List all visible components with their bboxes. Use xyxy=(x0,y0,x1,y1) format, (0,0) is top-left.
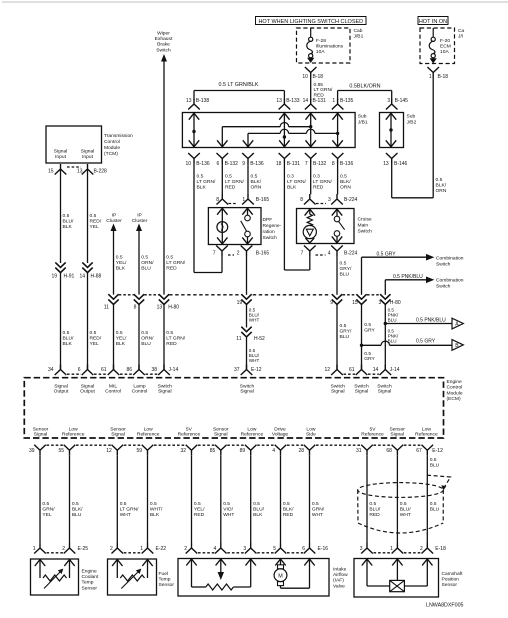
ECM bottom pin 85 xyxy=(215,445,227,456)
svg-text:Low: Low xyxy=(144,426,153,432)
svg-text:0.85: 0.85 xyxy=(314,82,324,88)
svg-text:Module: Module xyxy=(447,390,463,396)
svg-text:Transmission: Transmission xyxy=(104,133,133,139)
dashed link B-224 bottom xyxy=(316,254,326,256)
connector 15 H-80 xyxy=(356,294,366,304)
svg-text:Sub: Sub xyxy=(358,114,367,120)
svg-text:3: 3 xyxy=(328,197,331,203)
CMP pickup coil xyxy=(362,559,372,566)
svg-text:9: 9 xyxy=(242,161,245,167)
svg-text:RED: RED xyxy=(166,265,177,271)
svg-text:10A: 10A xyxy=(440,49,449,55)
svg-text:14: 14 xyxy=(79,274,85,280)
svg-text:LT GRN/: LT GRN/ xyxy=(313,179,332,185)
svg-text:13: 13 xyxy=(186,98,192,104)
connector 9 H-80 xyxy=(332,294,342,304)
svg-text:Signal: Signal xyxy=(355,389,369,395)
svg-text:Wiper: Wiper xyxy=(157,31,170,37)
svg-text:J/B2: J/B2 xyxy=(407,120,417,126)
wire TCM pin15 upper xyxy=(60,169,62,263)
wire fuse F-28 to B-131 xyxy=(310,78,312,101)
svg-text:BLU/: BLU/ xyxy=(63,218,75,224)
svg-text:5: 5 xyxy=(273,546,276,552)
svg-text:YEL: YEL xyxy=(90,341,100,347)
svg-text:0.5: 0.5 xyxy=(90,213,97,219)
svg-text:6: 6 xyxy=(217,161,220,167)
svg-text:1: 1 xyxy=(33,546,36,552)
ECM bottom pin 12 xyxy=(112,445,124,456)
svg-text:Signal: Signal xyxy=(378,389,392,395)
Sub J/B1 branch wire pin9 xyxy=(247,133,249,147)
svg-text:LT GRN/: LT GRN/ xyxy=(197,179,216,185)
svg-text:2: 2 xyxy=(184,546,187,552)
svg-text:B-224: B-224 xyxy=(344,251,358,257)
svg-text:(ECM): (ECM) xyxy=(447,396,461,402)
svg-text:BLK: BLK xyxy=(287,184,297,190)
svg-text:RED: RED xyxy=(313,184,324,190)
connector 10 B-136 xyxy=(188,153,200,164)
svg-text:Sensor: Sensor xyxy=(389,426,405,432)
svg-text:0.5: 0.5 xyxy=(283,501,290,507)
svg-text:(TCM): (TCM) xyxy=(104,151,118,157)
sensor connector pin 1 E-22 xyxy=(142,543,154,554)
svg-text:0.5: 0.5 xyxy=(150,501,157,507)
svg-text:0.5: 0.5 xyxy=(430,457,437,463)
connector 11 H-80 xyxy=(108,294,118,304)
svg-text:34: 34 xyxy=(48,367,54,373)
ECM bottom pin 55 xyxy=(64,445,76,456)
svg-text:BLU: BLU xyxy=(430,506,440,512)
IAF wiper arrow xyxy=(216,559,226,566)
connector 14 B-131 xyxy=(305,99,317,110)
wire wiper switch down xyxy=(163,61,165,295)
svg-text:BLU: BLU xyxy=(388,317,397,322)
svg-text:8: 8 xyxy=(216,197,219,203)
svg-text:8: 8 xyxy=(300,197,303,203)
connector 13 B-133 xyxy=(279,99,291,110)
wire PNK branch to A xyxy=(385,323,452,325)
svg-text:10A: 10A xyxy=(316,49,325,55)
wire DPF pin2 to ECM pin37 xyxy=(246,337,248,369)
wire TCM pin13 upper xyxy=(87,169,89,263)
svg-text:Airflow: Airflow xyxy=(333,572,348,578)
svg-text:Output: Output xyxy=(80,389,95,395)
connector row dashed mid xyxy=(253,294,328,296)
wire IP1 lower xyxy=(113,305,115,370)
svg-text:ORN: ORN xyxy=(251,184,262,190)
svg-text:Intake: Intake xyxy=(333,567,347,573)
bottom wire x=427.3 xyxy=(426,455,428,543)
svg-text:0.3: 0.3 xyxy=(313,174,320,180)
svg-text:B-145: B-145 xyxy=(395,98,409,104)
svg-text:Sensor: Sensor xyxy=(110,426,126,432)
box Camshaft Position Sensor xyxy=(354,559,439,598)
svg-text:Switch: Switch xyxy=(436,261,451,267)
svg-text:BLU: BLU xyxy=(141,341,151,347)
svg-text:0.5 PNK/BLU: 0.5 PNK/BLU xyxy=(416,318,446,324)
connector 6 B-132 xyxy=(217,153,229,164)
svg-text:Cluster: Cluster xyxy=(132,218,148,224)
svg-text:6: 6 xyxy=(302,546,305,552)
svg-text:B-136: B-136 xyxy=(250,161,264,167)
connector 13 B-138 xyxy=(188,99,200,110)
svg-text:BLK/: BLK/ xyxy=(283,506,294,512)
svg-text:0.5 PNK/BLU: 0.5 PNK/BLU xyxy=(393,274,423,280)
triangle A xyxy=(452,318,463,329)
svg-text:59: 59 xyxy=(136,448,142,454)
bottom wire x=309.5 xyxy=(309,455,311,543)
wire IP cluster 2 xyxy=(138,231,140,295)
svg-text:J-14: J-14 xyxy=(169,367,179,373)
wire fuse F-20 down right rail xyxy=(432,78,434,198)
ECM top pin 61 xyxy=(108,365,120,376)
svg-text:Module: Module xyxy=(104,145,120,151)
svg-text:5V: 5V xyxy=(186,426,193,432)
svg-text:J/B1: J/B1 xyxy=(354,34,364,40)
svg-text:B-131: B-131 xyxy=(287,161,301,167)
svg-text:E-12: E-12 xyxy=(432,448,443,454)
IAF potentiometer xyxy=(186,559,196,566)
svg-text:0.5: 0.5 xyxy=(253,501,260,507)
svg-text:Low: Low xyxy=(69,426,78,432)
sensor connector pin 6 E-16 xyxy=(304,543,316,554)
IAF motor M xyxy=(275,559,285,566)
svg-text:E-16: E-16 xyxy=(318,546,329,552)
svg-text:13: 13 xyxy=(157,305,163,311)
svg-text:6: 6 xyxy=(78,367,81,373)
svg-text:Switch: Switch xyxy=(158,383,173,389)
svg-text:Switch: Switch xyxy=(436,284,451,290)
sensor connector pin 2 xyxy=(112,543,124,554)
svg-text:12: 12 xyxy=(106,448,112,454)
svg-text:B-136: B-136 xyxy=(340,161,354,167)
wire B-136 pin10 to DPF pin7 xyxy=(193,164,195,273)
shielded cable loop (dashed) xyxy=(358,475,451,533)
svg-text:IP: IP xyxy=(137,213,142,219)
svg-text:Signal: Signal xyxy=(390,432,404,438)
svg-text:0.5: 0.5 xyxy=(340,174,347,180)
ECM top pin 12 xyxy=(331,365,343,376)
svg-text:Sensor: Sensor xyxy=(159,582,175,588)
svg-text:LT GRN/: LT GRN/ xyxy=(225,179,244,185)
svg-text:B-132: B-132 xyxy=(313,161,327,167)
svg-text:Low: Low xyxy=(306,426,315,432)
pin 15 TCM xyxy=(55,164,67,175)
svg-text:14: 14 xyxy=(373,367,379,373)
svg-text:B-165: B-165 xyxy=(256,251,270,257)
Cruise lamp with resistor xyxy=(305,209,315,216)
svg-text:37: 37 xyxy=(234,367,240,373)
Sub J/B1 jumper h2 xyxy=(248,132,280,134)
svg-text:7: 7 xyxy=(213,251,216,257)
svg-text:Signal: Signal xyxy=(240,389,254,395)
svg-text:GRY: GRY xyxy=(364,327,375,333)
svg-text:86: 86 xyxy=(126,367,132,373)
svg-text:BLU: BLU xyxy=(430,462,440,468)
svg-text:11: 11 xyxy=(104,305,109,311)
svg-text:Sensor: Sensor xyxy=(82,585,98,591)
dashed link B-224 top xyxy=(316,203,326,205)
bottom wire x=220.8 xyxy=(220,455,222,543)
Cruise switch contact xyxy=(336,209,338,217)
svg-text:A: A xyxy=(455,322,459,328)
dashed link B-165 top xyxy=(229,203,237,205)
svg-text:9: 9 xyxy=(330,300,333,306)
Sub J/B1 through wire x=284.4 xyxy=(283,113,285,148)
svg-text:ORN: ORN xyxy=(436,188,447,194)
ECM top pin 38 J-14 xyxy=(158,365,170,376)
page top rule xyxy=(2,1,508,3)
svg-text:Sensor: Sensor xyxy=(213,426,229,432)
fuse box F-28 Cab J/B1 (dashed) xyxy=(297,28,351,63)
svg-text:Reference: Reference xyxy=(178,432,201,438)
svg-text:0.5: 0.5 xyxy=(430,501,437,507)
svg-text:GRN/: GRN/ xyxy=(312,506,325,512)
ECM top pin 6 xyxy=(82,365,94,376)
svg-text:Drive: Drive xyxy=(274,426,286,432)
wire wiper lower xyxy=(163,305,165,370)
svg-text:Valve: Valve xyxy=(333,583,345,589)
svg-text:(IAF): (IAF) xyxy=(333,578,344,584)
wire TCM pin15 lower xyxy=(60,273,62,370)
svg-text:Regene-: Regene- xyxy=(263,223,282,229)
svg-text:Signal: Signal xyxy=(81,149,95,155)
svg-text:Exhaust: Exhaust xyxy=(155,36,173,42)
svg-text:Switch: Switch xyxy=(240,383,255,389)
connector row H-80 left dashed xyxy=(119,294,134,296)
svg-text:F-20: F-20 xyxy=(440,38,450,44)
svg-text:RED/: RED/ xyxy=(90,335,102,341)
svg-text:0.5: 0.5 xyxy=(141,255,148,261)
svg-text:15: 15 xyxy=(352,300,358,306)
svg-text:LT GRN/: LT GRN/ xyxy=(120,506,139,512)
wire right rail to B-146 xyxy=(392,197,434,199)
svg-text:5V: 5V xyxy=(370,426,377,432)
svg-text:3: 3 xyxy=(387,98,390,104)
ECM top pin 61 xyxy=(356,365,368,376)
svg-text:89: 89 xyxy=(240,448,246,454)
bottom wire x=191.5 xyxy=(191,455,193,543)
ECM bottom pin dashes xyxy=(47,444,64,446)
svg-text:BLU/: BLU/ xyxy=(400,506,412,512)
svg-text:13: 13 xyxy=(77,169,83,175)
svg-text:Control: Control xyxy=(105,389,121,395)
sensor row dashes xyxy=(47,552,64,554)
svg-text:11: 11 xyxy=(236,336,241,342)
box Engine Control Module ECM (dashed) xyxy=(24,378,443,438)
svg-text:GRY/: GRY/ xyxy=(340,328,353,334)
sensor connector pin 2 E-18 xyxy=(422,543,434,554)
svg-text:0.5 GRY: 0.5 GRY xyxy=(416,339,436,345)
svg-text:GRY/: GRY/ xyxy=(340,266,353,272)
svg-text:BLU/: BLU/ xyxy=(63,335,75,341)
svg-text:Combination: Combination xyxy=(436,278,464,284)
svg-text:0.5: 0.5 xyxy=(141,330,148,336)
svg-text:61: 61 xyxy=(101,367,107,373)
svg-text:Cab: Cab xyxy=(354,28,363,34)
connector 7 B-132 xyxy=(305,153,317,164)
svg-text:18: 18 xyxy=(276,161,282,167)
connector 3 H-80 right xyxy=(380,294,390,304)
svg-text:E-25: E-25 xyxy=(78,546,89,552)
svg-text:BLU: BLU xyxy=(141,265,151,271)
svg-text:HOT IN ON: HOT IN ON xyxy=(419,19,447,25)
svg-text:7: 7 xyxy=(305,161,308,167)
svg-text:B-131: B-131 xyxy=(313,98,327,104)
ECM top pin 86 xyxy=(133,365,145,376)
svg-text:RED: RED xyxy=(166,341,177,347)
svg-text:0.5: 0.5 xyxy=(340,323,347,329)
svg-text:H-91: H-91 xyxy=(64,274,75,280)
svg-text:B-146: B-146 xyxy=(394,161,408,167)
svg-text:B-224: B-224 xyxy=(344,197,358,203)
fuse F-28 Illuminations 10A xyxy=(307,28,313,58)
svg-text:10: 10 xyxy=(185,161,191,167)
ECM top pin 37 E-12 xyxy=(241,365,253,376)
Sub J/B1 through wire x=337.6 xyxy=(337,113,339,148)
svg-text:1: 1 xyxy=(390,546,393,552)
svg-text:0.5: 0.5 xyxy=(194,501,201,507)
svg-text:YEL/: YEL/ xyxy=(116,260,127,266)
sensor connector pin 4 xyxy=(215,543,227,554)
svg-text:Signal: Signal xyxy=(81,383,95,389)
svg-text:RED: RED xyxy=(225,184,236,190)
svg-text:1: 1 xyxy=(242,197,245,203)
junction PNK branch xyxy=(384,322,387,325)
wire B-136 pin8 to Cruise pin3 xyxy=(337,164,339,195)
wire Cruise pin4 to ECM pin12 xyxy=(336,305,338,370)
svg-text:2: 2 xyxy=(420,546,423,552)
ECM bottom pin 32 xyxy=(186,445,198,456)
svg-text:7: 7 xyxy=(301,251,304,257)
wire B-132 pin6 to DPF pin8 xyxy=(221,164,223,195)
svg-text:MIL: MIL xyxy=(109,383,117,389)
svg-text:BLK/: BLK/ xyxy=(340,179,351,185)
svg-text:BLK: BLK xyxy=(63,224,73,230)
svg-text:Main: Main xyxy=(358,223,369,229)
svg-text:Low: Low xyxy=(422,426,431,432)
svg-text:M: M xyxy=(278,573,283,579)
svg-text:4: 4 xyxy=(328,251,331,257)
svg-text:3: 3 xyxy=(243,546,246,552)
svg-text:0.5: 0.5 xyxy=(63,330,70,336)
svg-text:3: 3 xyxy=(379,300,382,306)
pin 8 Cruise xyxy=(304,194,316,205)
svg-text:0.5: 0.5 xyxy=(116,255,123,261)
svg-text:Switch: Switch xyxy=(358,229,373,235)
svg-text:Voltage: Voltage xyxy=(272,432,289,438)
wire B-132 pin7 to Cruise pin8 xyxy=(310,164,312,195)
svg-text:85: 85 xyxy=(210,448,216,454)
svg-text:RED: RED xyxy=(369,512,380,518)
svg-text:BLU: BLU xyxy=(388,338,397,343)
svg-text:0.5: 0.5 xyxy=(369,501,376,507)
svg-text:Switch: Switch xyxy=(331,383,346,389)
Sub J/B1 jumper h1 xyxy=(222,126,280,128)
svg-text:B-18: B-18 xyxy=(438,74,449,80)
svg-text:15: 15 xyxy=(48,169,54,175)
svg-text:Control: Control xyxy=(104,139,120,145)
svg-text:Reference: Reference xyxy=(415,432,438,438)
svg-text:55: 55 xyxy=(58,448,64,454)
connector 13 B-146 xyxy=(386,153,398,164)
svg-text:B-18: B-18 xyxy=(313,74,324,80)
svg-text:0.5: 0.5 xyxy=(90,330,97,336)
svg-text:Signal: Signal xyxy=(54,383,68,389)
label HOT WHEN LIGHTING SWITCH CLOSED xyxy=(256,17,367,25)
wire GRY branch to B xyxy=(362,344,382,346)
svg-text:0.5: 0.5 xyxy=(436,177,443,183)
svg-text:YEL/: YEL/ xyxy=(116,335,127,341)
svg-text:B-228: B-228 xyxy=(94,169,108,175)
svg-text:Signal: Signal xyxy=(214,432,228,438)
connector 10 B-18 xyxy=(305,67,317,78)
svg-text:BLK: BLK xyxy=(197,184,207,190)
svg-text:0.5: 0.5 xyxy=(197,174,204,180)
ECM bottom pin 89 xyxy=(245,445,257,456)
svg-text:Engine: Engine xyxy=(82,569,98,575)
svg-text:HOT WHEN LIGHTING SWITCH CLOSE: HOT WHEN LIGHTING SWITCH CLOSED xyxy=(258,19,363,25)
connector 9 B-136 xyxy=(242,153,254,164)
svg-text:4: 4 xyxy=(214,546,217,552)
svg-text:Signal: Signal xyxy=(158,389,172,395)
Sub J/B1 through wire x=310.7 xyxy=(310,113,312,148)
bottom wire x=69.5 xyxy=(69,455,71,543)
svg-text:WHT: WHT xyxy=(120,512,131,518)
svg-text:Cluster: Cluster xyxy=(106,218,122,224)
Sub J/B1 through wire x=194 xyxy=(193,113,195,148)
pin 8 DPF xyxy=(217,194,229,205)
box Cruise Main Switch xyxy=(297,209,355,244)
svg-text:Fuel: Fuel xyxy=(159,571,169,577)
svg-text:B-165: B-165 xyxy=(256,197,270,203)
sensor connector pin 3 xyxy=(361,543,373,554)
box Engine Coolant Temp Sensor xyxy=(31,559,79,595)
svg-text:1: 1 xyxy=(332,98,335,104)
svg-text:Control: Control xyxy=(132,389,148,395)
svg-text:LNWA8DXF005: LNWA8DXF005 xyxy=(426,603,464,609)
connector 19 H-80 mid xyxy=(241,294,251,304)
triangle B xyxy=(452,340,463,351)
svg-text:Sensor: Sensor xyxy=(442,582,458,588)
svg-text:13: 13 xyxy=(276,98,282,104)
pin 7 Cruise xyxy=(304,246,316,257)
svg-text:Ca: Ca xyxy=(458,28,465,34)
connector 8 B-136 xyxy=(332,153,344,164)
connector 14 H-88 xyxy=(82,262,92,272)
svg-text:BLU: BLU xyxy=(340,271,350,277)
connector 1 B-135 xyxy=(332,99,344,110)
svg-text:Signal: Signal xyxy=(34,432,48,438)
svg-text:Lamp: Lamp xyxy=(133,383,146,389)
svg-text:YEL: YEL xyxy=(42,512,52,518)
svg-text:0.5: 0.5 xyxy=(72,501,79,507)
wire GRY to ECM pin61 xyxy=(361,305,363,370)
svg-text:12: 12 xyxy=(324,367,330,373)
connector 8 H-80 xyxy=(134,294,144,304)
connector 19 H-91 xyxy=(55,262,65,272)
bottom wire x=117.3 xyxy=(116,455,118,543)
svg-text:2: 2 xyxy=(237,251,240,257)
connector row dashed right2 xyxy=(367,294,380,296)
svg-text:Switch: Switch xyxy=(156,47,171,53)
svg-text:68: 68 xyxy=(386,448,392,454)
wire 0.5 PNK/BLU to combination switch xyxy=(384,280,386,295)
wire PNK down 1 xyxy=(384,305,386,370)
svg-text:Switch: Switch xyxy=(377,383,392,389)
ECM bottom pin 31 xyxy=(361,445,373,456)
DPF switch contact xyxy=(247,208,249,216)
